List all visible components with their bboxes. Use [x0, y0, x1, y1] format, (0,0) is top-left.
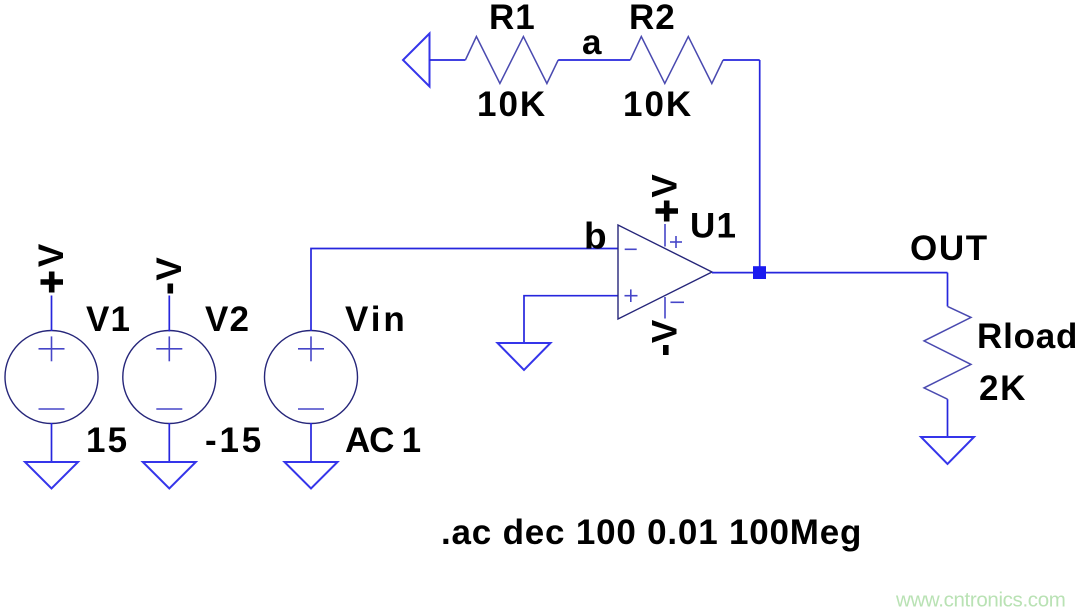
resistor R1: [465, 37, 558, 84]
port arrow (left input flag): [403, 34, 430, 87]
svg-text:OUT: OUT: [910, 229, 989, 268]
svg-text:a: a: [582, 23, 602, 62]
svg-text:b: b: [584, 216, 607, 257]
wire R2 to corner: [723, 59, 760, 61]
svg-text:V: V: [646, 319, 685, 343]
svg-text:15: 15: [86, 421, 129, 460]
resistor R2: [630, 37, 723, 84]
V2 bottom lead: [168, 423, 170, 462]
Vin top lead + wire to op-amp inverting input: [311, 249, 618, 332]
svg-text:.ac dec 100 0.01 100Meg: .ac dec 100 0.01 100Meg: [441, 513, 862, 552]
svg-text:-15: -15: [205, 421, 264, 460]
svg-text:10K: 10K: [623, 85, 693, 124]
V1 bottom lead: [51, 423, 53, 462]
svg-text:2K: 2K: [979, 369, 1027, 408]
resistor Rload: [924, 306, 971, 399]
svg-text:10K: 10K: [477, 85, 547, 124]
ground (op-amp + input): [498, 343, 551, 370]
V1 top lead: [51, 296, 53, 332]
output wire: [712, 272, 948, 274]
svg-text:V: V: [150, 257, 189, 281]
svg-text:R1: R1: [489, 0, 536, 37]
V2 top lead: [168, 296, 170, 332]
svg-text:V1: V1: [86, 300, 131, 339]
wire node a (R1 to R2): [558, 59, 630, 61]
wire arrow to R1: [430, 59, 466, 61]
voltage source V2: [123, 331, 216, 424]
svg-text:V2: V2: [205, 300, 250, 339]
svg-text:R2: R2: [629, 0, 676, 37]
op-amp power pins: [665, 224, 684, 319]
op-amp input markers: [625, 249, 638, 302]
wire OUT corner down to Rload: [947, 273, 949, 307]
ground (V2): [143, 462, 196, 489]
svg-text:U1: U1: [690, 207, 737, 246]
ground (V1): [25, 462, 78, 489]
wire feedback vertical: [759, 60, 761, 273]
svg-text:AC 1: AC 1: [345, 421, 421, 460]
voltage source Vin: [265, 331, 358, 424]
svg-text:www.cntronics.com: www.cntronics.com: [895, 589, 1065, 612]
wire ground to op-amp non-inverting input: [524, 296, 618, 343]
op-amp U1: [618, 225, 712, 319]
svg-text:Rload: Rload: [977, 317, 1078, 356]
voltage source V1: [5, 331, 98, 424]
ground (Rload): [921, 437, 974, 464]
ground (Vin): [285, 462, 338, 489]
Rload bottom lead: [947, 399, 949, 437]
svg-text:V: V: [32, 243, 71, 267]
junction (output node): [753, 266, 766, 279]
Vin bottom lead: [310, 423, 312, 462]
svg-text:V: V: [646, 174, 685, 198]
svg-text:Vin: Vin: [345, 300, 408, 339]
